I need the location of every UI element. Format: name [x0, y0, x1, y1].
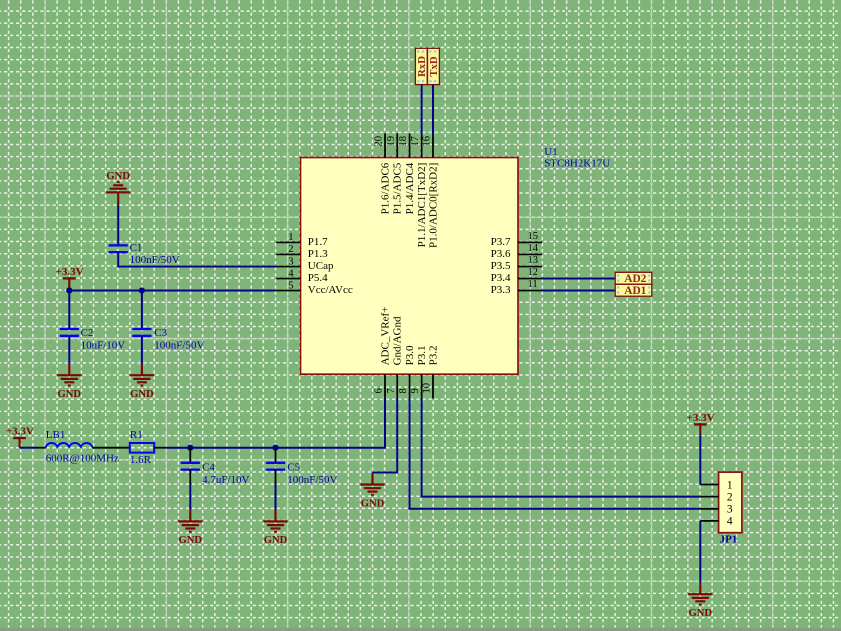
svg-text:GND: GND [58, 389, 82, 400]
svg-text:GND: GND [130, 389, 154, 400]
svg-text:P3.7: P3.7 [491, 236, 511, 248]
capacitor C3 [132, 329, 151, 336]
svg-text:4: 4 [288, 268, 294, 279]
U1 pin 10 (P3.2) [422, 346, 440, 399]
svg-text:20: 20 [374, 136, 385, 147]
U1 pin 5 (Vcc/AVcc) [276, 280, 353, 296]
svg-text:P3.0: P3.0 [404, 345, 416, 365]
svg-text:5: 5 [288, 280, 293, 291]
svg-text:C2: C2 [81, 327, 94, 339]
node hotspot markers [66, 129, 704, 586]
ferrite bead LB1 [35, 443, 130, 448]
U1 pin 19 (P1.5/ADC5) [386, 133, 404, 214]
wire C5 to GND [275, 484, 277, 509]
wire U1 pin 11 to AD1 [542, 290, 615, 292]
svg-text:13: 13 [528, 255, 539, 266]
wire GND to C1 [117, 205, 119, 246]
resistor R1 [130, 443, 167, 453]
svg-text:100nF/50V: 100nF/50V [130, 254, 180, 266]
U1 pin 12 (P3.4) [491, 267, 542, 284]
svg-text:P3.3: P3.3 [491, 284, 511, 296]
svg-text:15: 15 [528, 231, 539, 242]
U1 pin 20 (P1.6/ADC6) [374, 133, 392, 214]
U1 pin 7 (Gnd/AGnd) [386, 316, 404, 398]
svg-text:1: 1 [288, 232, 293, 243]
svg-text:+3.3V: +3.3V [56, 266, 84, 278]
svg-text:+3.3V: +3.3V [6, 426, 34, 438]
svg-text:Vcc/AVcc: Vcc/AVcc [308, 284, 353, 296]
svg-text:P1.5/ADC5: P1.5/ADC5 [392, 162, 404, 214]
svg-text:17: 17 [410, 136, 421, 147]
junction node at C2 tap [66, 287, 72, 293]
svg-text:GND: GND [264, 535, 288, 546]
power GND at U1 pin 7 [360, 473, 384, 510]
wire +3.3V to JP1 pin 1 [699, 436, 701, 485]
power +3.3V (left rail) [56, 266, 84, 291]
power GND below JP1 [688, 582, 712, 619]
svg-text:UCap: UCap [308, 260, 334, 272]
svg-text:R1: R1 [130, 429, 143, 441]
U1 pin 8 (P3.0) [398, 345, 416, 398]
svg-text:10: 10 [422, 383, 433, 394]
svg-text:18: 18 [398, 136, 409, 147]
svg-text:3: 3 [727, 504, 733, 516]
svg-text:9: 9 [410, 388, 421, 393]
wire C3 to GND [141, 336, 143, 363]
U1 pin 15 (P3.7) [491, 231, 542, 248]
svg-text:P3.6: P3.6 [491, 248, 511, 260]
svg-text:AD1: AD1 [624, 285, 646, 297]
junction node at C5 tap [272, 445, 278, 451]
port AD2 [615, 272, 652, 285]
power GND below C2 [57, 363, 81, 400]
capacitor C5 [266, 448, 285, 485]
svg-text:ADC_VRef+: ADC_VRef+ [379, 307, 391, 366]
U1 pin 14 (P3.6) [491, 243, 542, 260]
wire rail to C2 [68, 291, 70, 330]
U1 pin 6 (ADC_VRef+) [374, 307, 392, 399]
wire U1 pin 7 to GND [373, 399, 398, 473]
svg-text:4: 4 [727, 516, 733, 528]
svg-text:JP1: JP1 [720, 533, 738, 545]
svg-text:P1.4/ADC4: P1.4/ADC4 [404, 162, 416, 214]
svg-text:GND: GND [689, 608, 713, 619]
wire U1 pin 9 (P3.1) to JP1 pin 2 [422, 399, 701, 497]
svg-text:P1.1/ADC1[TxD2]: P1.1/ADC1[TxD2] [416, 163, 428, 248]
capacitor C1 [109, 245, 128, 252]
svg-text:3: 3 [288, 256, 293, 267]
svg-text:AD2: AD2 [624, 273, 646, 285]
U1 pin 16 (P1.0/ADC0[RxD2]) [422, 133, 440, 248]
svg-text:C5: C5 [287, 461, 300, 473]
svg-text:4.7uF/10V: 4.7uF/10V [202, 474, 249, 486]
svg-text:P3.1: P3.1 [416, 346, 428, 366]
svg-text:STC8H2K17U: STC8H2K17U [544, 158, 610, 170]
capacitor C4 [181, 448, 200, 485]
svg-text:P1.7: P1.7 [308, 236, 328, 248]
U1 pin 17 (P1.1/ADC1[TxD2]) [410, 133, 428, 247]
U1 pin 13 (P3.5) [491, 255, 542, 272]
junction node at C3 tap [139, 287, 145, 293]
svg-text:C4: C4 [202, 461, 215, 473]
svg-text:16: 16 [422, 136, 433, 147]
svg-text:100nF/50V: 100nF/50V [154, 340, 204, 352]
U1 pin 1 (P1.7) [276, 232, 328, 248]
wire U1 pin 12 to AD2 [542, 278, 615, 280]
wire RxD to U1 pin 17 [421, 85, 423, 134]
wire +3.3V to LB1 [20, 447, 35, 449]
svg-text:2: 2 [727, 491, 733, 503]
svg-text:C3: C3 [154, 327, 167, 339]
svg-text:1.6R: 1.6R [130, 454, 152, 466]
svg-text:GND: GND [106, 171, 130, 182]
svg-text:GND: GND [179, 535, 203, 546]
svg-text:6: 6 [374, 388, 385, 393]
svg-text:P1.3: P1.3 [308, 248, 328, 260]
port AD1 [615, 284, 652, 297]
svg-text:P1.0/ADC0[RxD2]: P1.0/ADC0[RxD2] [427, 163, 439, 248]
svg-text:11: 11 [528, 279, 538, 290]
svg-text:GND: GND [361, 498, 385, 509]
power +3.3V (JP1) [687, 412, 715, 436]
svg-text:+3.3V: +3.3V [687, 412, 715, 424]
svg-text:U1: U1 [544, 146, 557, 158]
svg-text:14: 14 [528, 243, 539, 254]
svg-text:8: 8 [398, 388, 409, 393]
svg-text:Gnd/AGnd: Gnd/AGnd [392, 316, 404, 365]
wire TxD to U1 pin 16 [432, 85, 434, 134]
svg-text:P1.6/ADC6: P1.6/ADC6 [379, 162, 391, 214]
op IC U1 body [301, 158, 519, 375]
junction node at C4 tap [187, 445, 193, 451]
svg-text:2: 2 [288, 244, 293, 255]
power +3.3V (bottom left) [6, 426, 34, 448]
power GND above C1 [106, 171, 130, 204]
wire C1 to U1 pin 3 (UCap) [118, 252, 276, 266]
connector JP1 [700, 472, 742, 533]
power GND below C5 [263, 509, 287, 546]
U1 pin 9 (P3.1) [410, 346, 428, 399]
svg-text:LB1: LB1 [46, 429, 66, 441]
U1 pin 4 (P5.4) [276, 268, 328, 284]
wire C4 to GND [189, 484, 191, 509]
svg-text:C1: C1 [130, 242, 143, 254]
U1 pin 18 (P1.4/ADC4) [398, 133, 416, 214]
svg-text:P5.4: P5.4 [308, 272, 328, 284]
svg-text:RxD: RxD [416, 56, 428, 77]
svg-text:P3.2: P3.2 [427, 346, 439, 366]
U1 pin 3 (UCap) [276, 256, 334, 272]
wire R1 to U1 pin 6 rail [166, 399, 385, 448]
wire U1 pin 8 (P3.0) to JP1 pin 3 [410, 399, 701, 509]
wire +3.3V rail to U1 pin 5 (Vcc/AVcc) [69, 290, 276, 292]
power GND below C3 [130, 363, 154, 400]
svg-text:19: 19 [386, 136, 397, 147]
svg-text:TxD: TxD [428, 56, 440, 77]
wire C2 to GND [68, 336, 70, 363]
U1 pin 11 (P3.3) [491, 279, 542, 296]
power GND below C4 [178, 509, 202, 546]
svg-text:P3.4: P3.4 [491, 272, 511, 284]
svg-text:P3.5: P3.5 [491, 260, 511, 272]
port RxD [415, 48, 428, 84]
wire rail to C3 [141, 291, 143, 330]
svg-text:1: 1 [727, 479, 733, 491]
svg-text:12: 12 [528, 267, 539, 278]
svg-text:100nF/50V: 100nF/50V [287, 474, 337, 486]
capacitor C2 [60, 329, 79, 336]
svg-text:600R@100MHz: 600R@100MHz [46, 452, 119, 464]
U1 pin 2 (P1.3) [276, 244, 328, 260]
port TxD [428, 48, 441, 84]
svg-text:7: 7 [386, 388, 397, 393]
svg-text:10uF/10V: 10uF/10V [81, 340, 126, 352]
wire JP1 pin 4 to GND [699, 521, 701, 582]
